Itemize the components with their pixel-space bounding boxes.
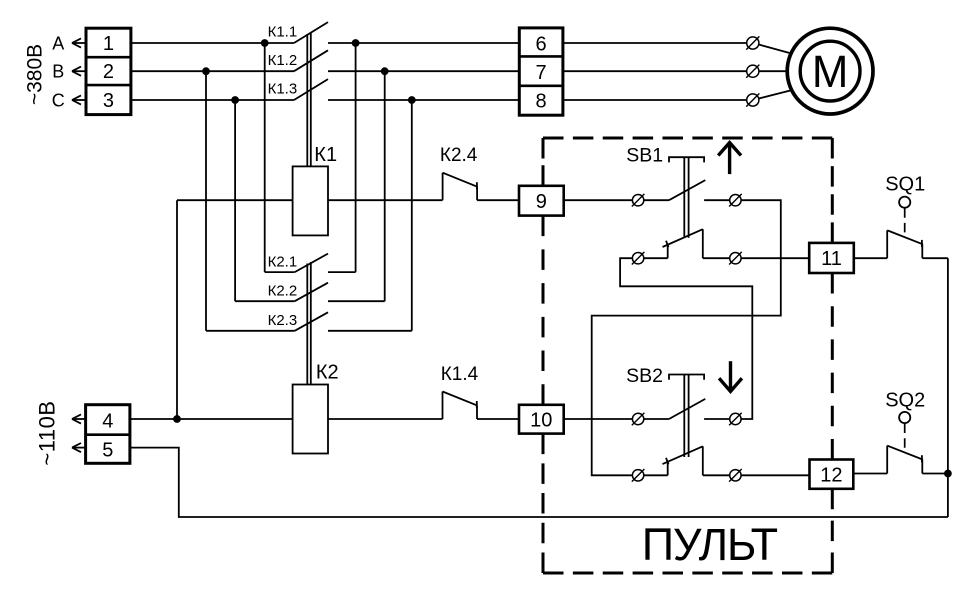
svg-text:M: M [812,46,849,97]
svg-text:B: B [52,62,64,82]
svg-text:К2.2: К2.2 [268,283,298,300]
svg-text:К1.2: К1.2 [268,52,298,69]
svg-text:3: 3 [103,90,114,112]
svg-text:5: 5 [102,439,113,461]
svg-text:1: 1 [103,33,114,55]
svg-text:~110В: ~110В [34,400,59,465]
svg-text:SB2: SB2 [626,365,663,387]
svg-text:A: A [52,34,64,54]
svg-text:SB1: SB1 [626,145,663,167]
svg-text:SQ1: SQ1 [885,173,925,195]
svg-text:11: 11 [821,248,842,270]
svg-text:ПУЛЬТ: ПУЛЬТ [642,519,778,570]
svg-text:8: 8 [536,90,547,112]
svg-text:К2.1: К2.1 [268,253,298,270]
svg-text:К2: К2 [316,362,339,384]
svg-text:7: 7 [536,62,547,84]
svg-text:SQ2: SQ2 [885,389,925,411]
svg-text:К2.4: К2.4 [440,145,478,166]
svg-text:К1: К1 [314,144,337,166]
svg-text:12: 12 [820,464,842,486]
svg-text:10: 10 [530,409,552,431]
svg-text:4: 4 [102,410,113,432]
svg-text:К2.3: К2.3 [268,312,298,329]
svg-text:К1.1: К1.1 [268,24,298,41]
svg-text:К1.4: К1.4 [441,364,479,385]
svg-text:9: 9 [536,191,547,213]
svg-text:К1.3: К1.3 [268,81,298,98]
svg-text:2: 2 [103,61,114,83]
svg-text:~380В: ~380В [24,44,47,105]
svg-text:6: 6 [536,33,547,55]
svg-text:C: C [52,91,65,111]
